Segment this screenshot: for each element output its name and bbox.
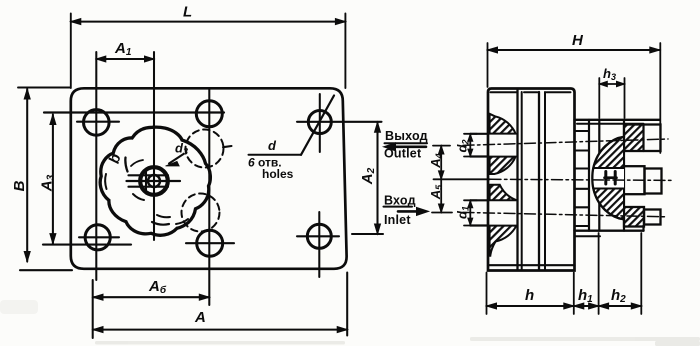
outlet centerline (dash-dot) [463,139,668,145]
rear cover plate right face [623,120,625,231]
central vertical centerline [153,52,155,240]
dimension h3 line [599,83,624,85]
hidden hole dashed circle upper [186,130,224,168]
dimension A1 line [96,58,154,60]
dimension H line [488,49,660,51]
neck between body and rear cover: bolt row stubs [575,131,590,151]
dimension L line [71,21,346,23]
h3 right extension [624,78,626,118]
flange section hatch lower lobe [490,226,517,256]
dimension A3 line [52,115,54,244]
d3 leader arrow to shaft hole [169,154,184,164]
A/A6 left extension [92,280,94,338]
mounting plate outline (front view) [71,88,347,268]
A5 bottom reference bar [432,212,452,214]
svg-text:Выход: Выход [385,129,428,143]
svg-text:L: L [183,4,192,21]
H right extension [659,43,661,153]
dimension A4 segment [440,146,442,180]
top hole row centerline [44,111,224,113]
hidden hole dashed circle lower [182,194,220,232]
top-left hole horizontal centerline [77,121,119,123]
bolt boss hatch top [624,125,644,151]
body inner top line segments [491,91,571,93]
d leader slash through hole [301,96,334,155]
bolt end bottom [644,210,661,225]
h/h1 extension [573,273,575,315]
bolt head middle [624,166,645,194]
bottom-middle hole horizontal centerline [186,242,234,244]
rear cover plate left face [598,120,600,231]
shaft hole [140,167,168,195]
body plate joint verticals [516,90,518,270]
axis reference bar to side view [434,178,491,180]
bottom dimension line h/h1/h2 [487,305,642,307]
bottom-right hole horizontal centerline [297,235,339,237]
bolt hole top-left [84,110,110,136]
A3 bottom extension [43,244,131,246]
d leader underline [249,154,302,156]
A right extension [346,273,348,336]
bolt end middle [645,169,662,194]
h left extension [486,273,488,315]
bottom-right hole vertical centerline [318,212,320,277]
svg-text:h: h [525,287,534,304]
d1 dimension bracket [464,200,477,225]
B bottom extension [20,269,72,271]
dimension L left extension [70,14,72,89]
outlet fraction rule [385,142,428,144]
inlet port stub lines [470,200,488,225]
rear cover bottom edge [575,229,644,231]
rear dome (section) [592,137,624,220]
body inner bottom line [488,264,575,266]
svg-text:А: А [194,309,206,326]
bolt hole bottom-left [85,225,110,250]
svg-text:holes: holes [262,167,294,181]
inlet flow arrow [398,210,420,213]
left bolt column centerline [95,52,97,280]
h2 right extension [640,233,642,314]
svg-text:H: H [572,32,584,49]
inlet centerline (dash-dot) [463,212,665,216]
scan smudges [0,300,700,346]
A4 top reference bar [433,145,450,147]
rear dome hatch lower [593,189,624,220]
svg-text:B: B [11,180,28,191]
d2 dimension bracket [464,134,477,157]
bolt head bottom [624,207,644,227]
bolt head top (full box) [624,125,661,152]
rear dome hatch upper [593,137,624,168]
flange section hatch above outlet small [490,157,516,174]
middle bolt column centerline [208,89,210,306]
B top extension [18,87,71,89]
h3 left extension [598,78,600,118]
svg-text:Вход: Вход [384,194,416,208]
rear cover left vertical [588,120,590,231]
top-right hole horizontal centerline / A2 top reference [297,121,382,123]
flange section hatch upper lobe [490,114,516,134]
step vertical bottom right [642,227,644,231]
svg-text:d: d [268,138,277,153]
svg-text:Outlet: Outlet [384,147,422,161]
svg-text:Inlet: Inlet [384,213,411,227]
bolt hole bottom-middle [197,230,223,256]
inlet fraction rule [384,206,413,208]
central boss lobed outline [100,127,210,235]
rear dome outline [592,137,624,220]
h1/h2 extension [598,233,600,314]
bolt hole bottom-right [307,224,331,248]
bolt boss hatch bottom [624,208,644,227]
shaft spline lines [127,175,181,186]
main axis centerline (dash-dot) [490,179,674,180]
pump body outline (side view) [488,89,575,271]
dimension A6 line [93,296,209,298]
dimension A5 segment [440,179,442,212]
dimension A2 line [376,122,378,234]
outlet port stub lines [470,134,488,157]
dimension A line [93,329,347,331]
bolt hole top-middle [196,101,222,127]
flange section hatch below axis [490,185,517,200]
top-right hole vertical centerline [319,94,321,152]
shaft end slot mark [606,172,615,185]
A2 bottom extension [352,233,383,235]
bolt hole top-right [308,111,331,134]
dimension B line [26,89,28,262]
boss arc marks [105,174,106,189]
b leader [125,158,127,172]
rear cover top edge [575,119,660,121]
H left extension [487,43,489,87]
outlet flow arrow [391,146,426,149]
dimension L right extension [344,14,346,89]
bottom-left hole horizontal centerline [79,236,119,238]
